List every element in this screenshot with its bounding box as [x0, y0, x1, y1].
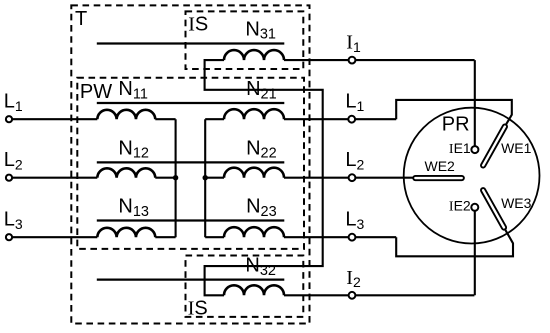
wire N21 to L1 terminal	[284, 118, 396, 120]
wire N23 to L3 terminal	[284, 236, 396, 238]
terminal L2 left	[6, 175, 12, 181]
terminal L1 left	[6, 116, 12, 122]
left bus vertical	[175, 119, 177, 237]
terminal I1 right	[349, 57, 356, 64]
svg-text:IS: IS	[188, 298, 208, 320]
core line row 5	[97, 279, 284, 281]
wire right bus to N21	[205, 118, 224, 120]
winding N23	[224, 227, 284, 237]
box IS bottom (dashed)	[186, 256, 304, 317]
terminal I2 right	[349, 292, 356, 299]
terminal L3 right	[349, 234, 356, 241]
terminal L3 left	[6, 234, 12, 240]
junction dot right bus	[203, 175, 208, 180]
wire L1 to WE1	[396, 100, 512, 126]
svg-text:IE2: IE2	[449, 197, 471, 214]
right bus vertical	[204, 119, 206, 237]
winding N32	[224, 285, 284, 295]
svg-text:WE2: WE2	[425, 158, 456, 174]
wire L3 left lead	[9, 236, 97, 238]
wire N11 to left bus	[155, 118, 175, 120]
electrode WE1 (capsule)	[480, 124, 508, 169]
electrode WE3 (capsule)	[480, 187, 507, 230]
terminal IE2	[471, 204, 478, 211]
svg-text:WE1: WE1	[501, 140, 532, 156]
terminal L1 right	[348, 116, 355, 123]
winding N12	[97, 168, 155, 177]
svg-text:IE1: IE1	[449, 140, 471, 157]
wire right bus to N23	[205, 236, 224, 238]
winding N21	[224, 109, 284, 119]
wire N13 to left bus	[155, 236, 175, 238]
wire L3 to WE3	[396, 229, 513, 257]
wire N31 to I1 terminal	[284, 59, 475, 61]
wire IE1 drop from I1	[474, 60, 476, 146]
electrode WE2 (capsule)	[413, 176, 464, 180]
terminal L2 right	[349, 174, 356, 181]
svg-text:PW: PW	[80, 81, 112, 103]
wire L2 left lead	[9, 177, 97, 179]
box T (dashed)	[71, 5, 309, 323]
wire N22 to L2 terminal and WE2	[284, 177, 413, 179]
core line row 4	[97, 219, 284, 221]
junction dot left bus	[173, 175, 178, 180]
core line row 1	[97, 42, 284, 44]
wire tie N31-left to N32-left	[205, 60, 323, 295]
winding N22	[224, 168, 284, 178]
box PW (dashed)	[77, 78, 304, 249]
wire right bus to N22	[205, 177, 224, 179]
core line row 3	[97, 161, 284, 163]
winding N13	[97, 228, 155, 237]
box IS top (dashed)	[186, 11, 304, 69]
core line row 2	[97, 102, 284, 104]
wire N32 to I2 terminal and IE2	[284, 294, 474, 296]
terminal IE1	[471, 146, 478, 153]
PR circle	[404, 108, 540, 244]
winding N31	[224, 50, 284, 60]
svg-text:T: T	[75, 8, 87, 30]
svg-text:IS: IS	[188, 14, 208, 36]
svg-text:WE3: WE3	[501, 195, 532, 211]
wire IE2 drop to I2	[474, 210, 476, 295]
winding N11	[97, 110, 155, 119]
svg-text:PR: PR	[442, 114, 470, 136]
wire N12 to left bus	[155, 177, 175, 179]
wire L1 left lead	[9, 118, 97, 120]
